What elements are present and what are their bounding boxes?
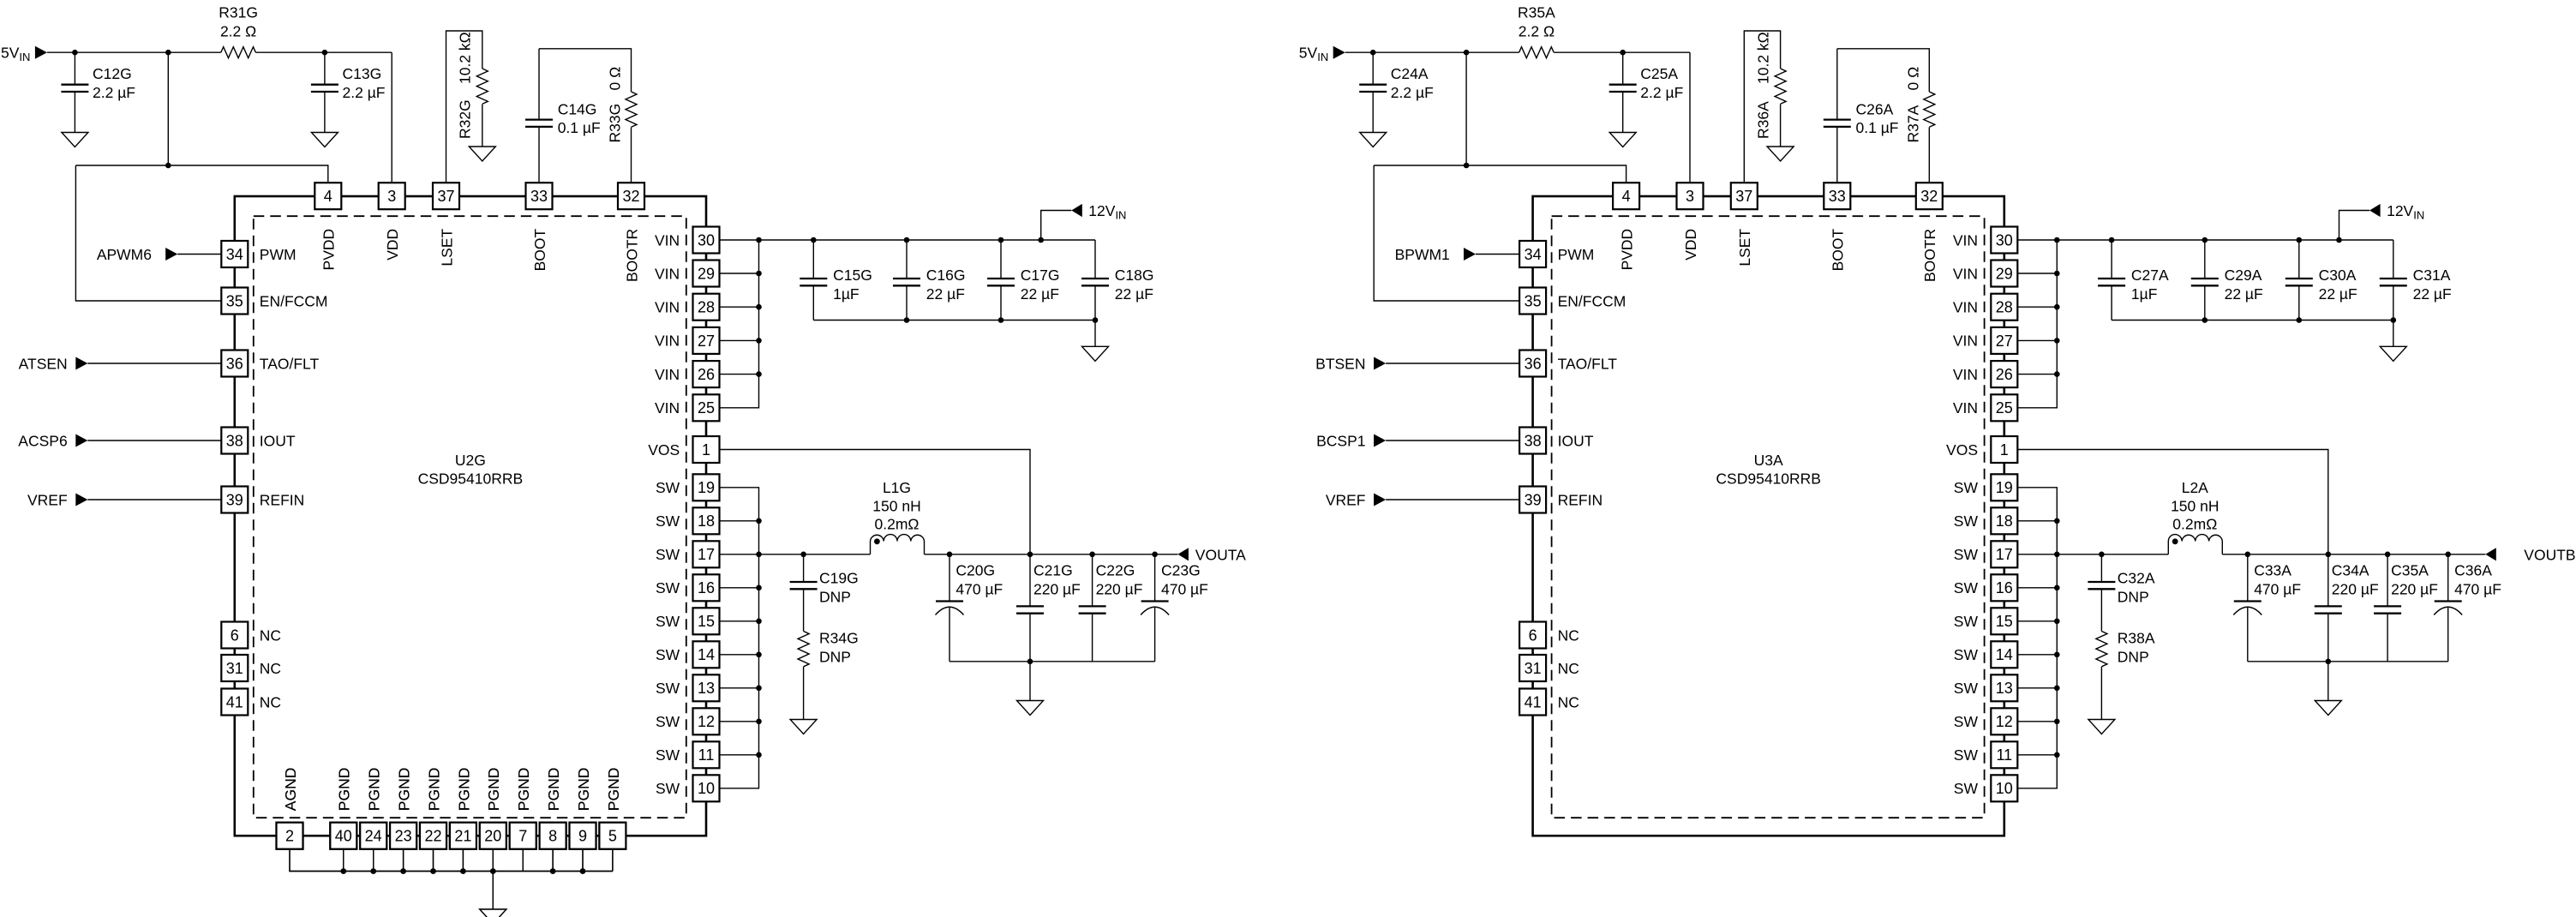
svg-text:BOOTR: BOOTR — [623, 229, 640, 282]
junction SW bus — [756, 552, 762, 558]
pin 35 (EN/FCCM) — [1519, 288, 1626, 315]
junction VIN rail — [2202, 237, 2208, 243]
svg-text:SW: SW — [656, 512, 680, 530]
svg-text:DNP: DNP — [819, 589, 851, 606]
ground — [2380, 346, 2406, 361]
pin 12 (SW) — [1954, 708, 2018, 734]
junction PGND bus — [400, 868, 406, 874]
junction PGND bus — [550, 868, 556, 874]
IC U3A dashed boundary — [1552, 216, 1985, 818]
wire SW pin 12 — [2017, 721, 2057, 722]
wire inductor to output — [925, 554, 1178, 555]
pin 33 (BOOT) — [526, 183, 553, 271]
svg-text:9: 9 — [578, 828, 587, 845]
pin 27 (VIN) — [655, 327, 719, 354]
junction VIN bus — [2054, 304, 2060, 310]
svg-text:TAO/FLT: TAO/FLT — [260, 355, 320, 372]
svg-text:1: 1 — [702, 441, 710, 458]
junction SW bus — [756, 719, 762, 725]
pin 38 (IOUT) — [1519, 428, 1594, 454]
svg-text:VREF: VREF — [27, 491, 68, 508]
svg-text:BCSP1: BCSP1 — [1316, 432, 1365, 449]
svg-text:NC: NC — [1558, 626, 1579, 644]
svg-text:VIN: VIN — [1953, 366, 1978, 383]
pin 17 (SW) — [1954, 541, 2018, 567]
pin 34 (PWM) — [1519, 241, 1594, 267]
svg-text:EN/FCCM: EN/FCCM — [1558, 292, 1626, 309]
pin 33 (BOOT) — [1824, 183, 1850, 271]
pin 19 (SW) — [656, 474, 720, 500]
wire VIN pin 27 — [720, 339, 759, 341]
svg-text:VOS: VOS — [648, 441, 680, 458]
svg-text:2.2 Ω: 2.2 Ω — [220, 23, 256, 40]
wire VIN bottom bus — [813, 320, 1095, 321]
wire PGND pin 24 — [373, 849, 374, 872]
junction SW bus — [756, 585, 762, 591]
ground — [2088, 720, 2115, 734]
pin 16 (SW) — [1954, 574, 2018, 601]
wire PVDD feed — [1374, 165, 1626, 183]
wire SW pin 11 — [2017, 754, 2057, 756]
svg-text:C33A: C33A — [2254, 562, 2291, 579]
wire PVDD feed — [75, 165, 327, 183]
wire R38A to ground — [2100, 667, 2102, 720]
wire AGND — [290, 849, 344, 872]
svg-text:220 µF: 220 µF — [2332, 581, 2379, 598]
svg-text:15: 15 — [1996, 613, 2013, 630]
junction VIN bus — [756, 304, 762, 310]
pin 39 (REFIN) — [221, 487, 304, 513]
pin 29 (VIN) — [1953, 261, 2017, 287]
resistor R34G DNP — [798, 630, 859, 667]
ground — [1017, 701, 1044, 716]
svg-text:C12G: C12G — [93, 65, 132, 82]
svg-text:PGND: PGND — [336, 768, 353, 812]
wire PGND pin 23 — [403, 849, 404, 872]
wire BOOT — [539, 49, 632, 183]
capacitor C14G 0.1 uF — [525, 101, 601, 137]
junction output node — [947, 552, 953, 558]
svg-text:C16G: C16G — [926, 267, 966, 284]
pin 10 (SW) — [656, 775, 720, 801]
capacitor C13G 2.2 uF — [311, 52, 386, 132]
svg-text:3: 3 — [387, 188, 396, 205]
svg-text:C27A: C27A — [2131, 267, 2169, 284]
pin 37 (LSET) — [433, 183, 459, 266]
svg-text:22 µF: 22 µF — [2413, 285, 2452, 303]
pin 39 (REFIN) — [1519, 487, 1603, 513]
svg-text:BTSEN: BTSEN — [1315, 355, 1365, 372]
svg-text:VIN: VIN — [1953, 265, 1978, 282]
svg-text:VIN: VIN — [1953, 399, 1978, 417]
signal flag VREF — [1326, 491, 1519, 508]
svg-text:38: 38 — [226, 432, 243, 449]
capacitor C34A 220 µF — [2315, 554, 2379, 662]
junction SW bus — [2054, 585, 2060, 591]
svg-text:SW: SW — [1954, 780, 1979, 797]
svg-text:DNP: DNP — [819, 649, 851, 666]
resistor R37A 0 ohm — [1904, 67, 1935, 143]
pin 23 (PGND) — [390, 768, 416, 849]
pin 13 (SW) — [656, 674, 720, 701]
svg-text:PGND: PGND — [455, 768, 472, 812]
ground — [311, 133, 338, 147]
IC U2G outline — [235, 196, 706, 836]
svg-text:C22G: C22G — [1096, 562, 1135, 579]
wire PGND pin 8 — [552, 849, 554, 872]
pin 16 (SW) — [656, 574, 720, 601]
svg-text:0.2mΩ: 0.2mΩ — [875, 516, 920, 533]
IC U2G reference label — [418, 452, 524, 488]
junction output node — [2385, 552, 2391, 558]
wire VIN bus ground — [1094, 321, 1096, 347]
pin 17 (SW) — [656, 541, 720, 567]
svg-text:NC: NC — [1558, 693, 1579, 710]
svg-text:PGND: PGND — [425, 768, 442, 812]
junction SW bus — [2054, 619, 2060, 625]
svg-text:18: 18 — [698, 512, 715, 530]
svg-text:C26A: C26A — [1856, 101, 1894, 118]
resistor R38A DNP — [2096, 630, 2155, 667]
signal flag VREF — [27, 491, 221, 508]
wire PGND pin 7 — [522, 849, 524, 872]
pin 7 (PGND) — [510, 768, 536, 849]
junction VIN rail — [998, 237, 1004, 243]
svg-text:28: 28 — [698, 299, 715, 316]
svg-text:220 µF: 220 µF — [2391, 581, 2438, 598]
svg-text:22 µF: 22 µF — [926, 285, 965, 303]
ground — [2315, 701, 2341, 716]
wire PGND pin 22 — [433, 849, 434, 872]
svg-text:NC: NC — [260, 660, 281, 677]
capacitor C22G 220 µF — [1079, 554, 1143, 662]
wire LSET — [1744, 31, 1780, 183]
junction VIN bus — [756, 338, 762, 344]
pin 26 (VIN) — [1953, 361, 2017, 387]
svg-text:11: 11 — [1996, 746, 2012, 764]
junction VIN bus — [2054, 271, 2060, 277]
junction PGND bus — [580, 868, 586, 874]
svg-text:19: 19 — [1996, 479, 2013, 496]
svg-text:IOUT: IOUT — [260, 432, 296, 449]
svg-text:36: 36 — [226, 355, 243, 372]
junction snubber — [2099, 552, 2105, 558]
svg-text:4: 4 — [1622, 188, 1631, 205]
pin 2 (AGND) — [277, 768, 303, 849]
svg-text:470 µF: 470 µF — [1161, 581, 1208, 598]
svg-text:C24A: C24A — [1391, 65, 1429, 82]
svg-text:6: 6 — [231, 626, 239, 644]
svg-text:0 Ω: 0 Ω — [607, 67, 624, 91]
pin 36 (TAO/FLT) — [221, 351, 319, 377]
junction SW bus — [756, 686, 762, 692]
pin 22 (PGND) — [420, 768, 446, 849]
wire 5VIN rail — [47, 51, 221, 53]
wire VIN pin 27 — [2017, 339, 2057, 341]
junction output node — [1089, 552, 1095, 558]
svg-text:C36A: C36A — [2454, 562, 2492, 579]
power flag 5VIN (left half) — [1, 45, 47, 64]
junction PGND bus — [370, 868, 376, 874]
svg-text:PGND: PGND — [575, 768, 592, 812]
wire PGND pin 23 — [403, 849, 404, 872]
capacitor C16G 22 µF — [893, 240, 966, 321]
svg-text:PGND: PGND — [545, 768, 562, 812]
junction SW bus — [2054, 752, 2060, 758]
junction EN node — [165, 163, 171, 169]
pin 9 (PGND) — [570, 768, 596, 849]
pin 30 (VIN) — [655, 227, 719, 254]
signal flag BTSEN — [1315, 355, 1519, 372]
svg-text:26: 26 — [1996, 366, 2013, 383]
wire SW output — [720, 554, 871, 555]
signal flag ACSP6 — [18, 432, 221, 449]
junction VIN bottom bus — [2391, 317, 2397, 323]
wire SW pin 14 — [2017, 654, 2057, 656]
pin 23 (PGND) — [390, 768, 416, 849]
svg-text:PWM: PWM — [260, 246, 297, 263]
wire SW output — [2017, 554, 2168, 555]
junction PGND bus — [341, 868, 347, 874]
pin 28 (VIN) — [1953, 294, 2017, 321]
pin 21 (PGND) — [450, 768, 476, 849]
svg-text:24: 24 — [365, 828, 382, 845]
pin 20 (PGND) — [480, 768, 506, 849]
svg-text:C23G: C23G — [1161, 562, 1201, 579]
pin 2 (AGND) — [277, 768, 303, 849]
svg-text:220 µF: 220 µF — [1096, 581, 1143, 598]
svg-text:1: 1 — [2000, 441, 2009, 458]
capacitor C30A 22 µF — [2285, 240, 2357, 321]
pin 36 (TAO/FLT) — [1519, 351, 1617, 377]
power flag 12VIN — [2339, 202, 2425, 240]
wire R31G to pin 3 — [255, 52, 392, 183]
svg-text:VREF: VREF — [1326, 491, 1366, 508]
svg-text:15: 15 — [698, 613, 715, 630]
junction VIN rail — [2297, 237, 2303, 243]
svg-text:CSD95410RRB: CSD95410RRB — [1716, 470, 1821, 488]
capacitor C12G 2.2 uF — [61, 52, 135, 132]
svg-text:SW: SW — [656, 479, 680, 496]
capacitor C36A 470 µF — [2434, 554, 2501, 662]
svg-text:VDD: VDD — [1682, 229, 1699, 261]
wire output bottom bus — [950, 661, 1155, 662]
svg-text:VOS: VOS — [1946, 441, 1978, 458]
wire PGND pin 9 — [582, 849, 584, 872]
svg-text:19: 19 — [698, 479, 715, 496]
junction 5VIN/C25A — [1620, 50, 1626, 56]
pin 20 (PGND) — [480, 768, 506, 849]
svg-text:35: 35 — [226, 292, 243, 309]
wire VIN pin 26 — [720, 374, 759, 375]
svg-text:4: 4 — [324, 188, 332, 205]
svg-text:18: 18 — [1996, 512, 2013, 530]
ground — [1767, 147, 1794, 161]
ground — [1609, 133, 1636, 147]
junction output node — [2326, 552, 2332, 558]
pin 12 (SW) — [656, 708, 720, 734]
wire output ground — [2327, 662, 2329, 701]
junction VIN bus — [756, 371, 762, 377]
signal flag VOUTA — [1177, 547, 1246, 564]
wire SW pin 15 — [2017, 620, 2057, 622]
junction VIN bus top — [756, 237, 762, 243]
pin 40 (PGND) — [330, 768, 356, 849]
wire 5VIN to EN node — [167, 52, 169, 165]
junction SW bus — [756, 652, 762, 658]
svg-text:28: 28 — [1996, 299, 2013, 316]
capacitor C29A 22 µF — [2191, 240, 2263, 321]
wire SW pin 16 — [720, 587, 759, 589]
ground — [790, 720, 817, 734]
junction PGND bus — [460, 868, 466, 874]
capacitor C26A 0.1 uF — [1824, 101, 1899, 137]
wire PGND pin 21 — [462, 849, 464, 872]
svg-text:R37A: R37A — [1904, 105, 1921, 142]
pin 5 (PGND) — [599, 768, 626, 849]
wire PGND ground stub — [492, 872, 494, 910]
svg-text:34: 34 — [226, 246, 243, 263]
capacitor C20G 470 µF — [936, 554, 1003, 662]
svg-text:R38A: R38A — [2118, 630, 2155, 647]
svg-text:5: 5 — [608, 828, 617, 845]
svg-text:38: 38 — [1525, 432, 1542, 449]
svg-text:10: 10 — [698, 780, 715, 797]
wire PGND pin 5 — [612, 849, 614, 872]
wire VIN bus — [720, 240, 759, 408]
svg-text:BOOT: BOOT — [531, 228, 548, 271]
junction output node — [2445, 552, 2451, 558]
wire output bottom bus — [2248, 661, 2448, 662]
IC U3A outline — [1533, 196, 2004, 836]
capacitor C31A 22 µF — [2380, 240, 2452, 321]
pin 1 (VOS) — [648, 436, 719, 463]
svg-text:PGND: PGND — [396, 768, 413, 812]
svg-text:PGND: PGND — [485, 768, 502, 812]
svg-text:VIN: VIN — [1953, 333, 1978, 350]
junction VIN rail — [811, 237, 817, 243]
svg-text:SW: SW — [656, 713, 680, 730]
wire SW pin 13 — [2017, 687, 2057, 689]
junction SW bus — [756, 518, 762, 524]
svg-text:36: 36 — [1525, 355, 1542, 372]
svg-text:VIN: VIN — [655, 299, 680, 316]
junction SW bus — [2054, 552, 2060, 558]
pin 30 (VIN) — [1953, 227, 2017, 254]
pin 40 (PGND) — [330, 768, 356, 849]
svg-text:150 nH: 150 nH — [2171, 497, 2219, 514]
pin 11 (SW) — [656, 741, 720, 768]
svg-text:PVDD: PVDD — [321, 229, 338, 271]
power flag 5VIN (right half) — [1299, 45, 1345, 64]
svg-text:0.1 µF: 0.1 µF — [1856, 119, 1899, 136]
svg-text:22 µF: 22 µF — [1021, 285, 1059, 303]
svg-text:25: 25 — [1996, 399, 2013, 417]
wire PGND pin 7 — [522, 849, 524, 872]
junction SW bus — [756, 752, 762, 758]
svg-text:31: 31 — [1525, 660, 1542, 677]
wire PGND pin 5 — [612, 849, 614, 872]
svg-text:35: 35 — [1525, 292, 1542, 309]
pin 38 (IOUT) — [221, 428, 296, 454]
wire VIN rail — [2017, 239, 2393, 241]
pin 28 (VIN) — [655, 294, 719, 321]
svg-text:2.2 µF: 2.2 µF — [93, 84, 135, 101]
pin 3 (VDD) — [1677, 183, 1704, 261]
svg-text:C18G: C18G — [1115, 267, 1154, 284]
wire AGND — [290, 849, 344, 872]
junction SW bus — [2054, 686, 2060, 692]
svg-text:14: 14 — [1996, 646, 2013, 663]
signal flag APWM6 — [97, 246, 221, 263]
svg-text:470 µF: 470 µF — [2254, 581, 2301, 598]
svg-text:U3A: U3A — [1754, 452, 1783, 469]
pin 31 (NC) — [221, 655, 281, 681]
ground — [480, 909, 506, 917]
svg-text:11: 11 — [698, 746, 715, 764]
pin 31 (NC) — [1519, 655, 1579, 681]
svg-text:C17G: C17G — [1021, 267, 1060, 284]
svg-text:VIN: VIN — [1953, 299, 1978, 316]
svg-text:REFIN: REFIN — [1558, 491, 1603, 508]
svg-text:23: 23 — [395, 828, 412, 845]
junction SW bus — [756, 619, 762, 625]
pin 15 (SW) — [1954, 608, 2018, 634]
svg-text:39: 39 — [226, 491, 243, 508]
pin 7 (PGND) — [510, 768, 536, 849]
svg-text:LSET: LSET — [1736, 229, 1753, 267]
wire PGND pin 20 — [492, 849, 494, 872]
signal flag BCSP1 — [1316, 432, 1519, 449]
IC U3A reference label — [1716, 452, 1821, 488]
junction 5VIN/C13G — [322, 50, 328, 56]
svg-text:C19G: C19G — [819, 570, 859, 587]
svg-text:16: 16 — [698, 579, 715, 596]
pin 19 (SW) — [1954, 474, 2018, 500]
svg-text:PGND: PGND — [605, 768, 622, 812]
junction PGND bus — [550, 868, 556, 874]
junction PGND bus — [400, 868, 406, 874]
capacitor C18G 22 µF — [1081, 240, 1154, 321]
svg-text:2.2 µF: 2.2 µF — [343, 84, 386, 101]
pin 6 (NC) — [1519, 622, 1579, 649]
wire R35A to pin 3 — [1554, 52, 1690, 183]
pin 24 (PGND) — [360, 768, 386, 849]
wire PGND bus — [344, 871, 613, 872]
wire PGND pin 40 — [343, 849, 344, 872]
svg-text:NC: NC — [260, 693, 281, 710]
wire SW bus — [2017, 488, 2057, 788]
svg-text:REFIN: REFIN — [260, 491, 305, 508]
capacitor C32A DNP — [2088, 554, 2155, 632]
junction 12VIN stub — [2336, 237, 2342, 243]
svg-text:27: 27 — [698, 333, 715, 350]
svg-text:DNP: DNP — [2118, 649, 2149, 666]
resistor R33G 0 ohm — [607, 67, 638, 143]
junction VIN bottom bus — [998, 317, 1004, 323]
pin 10 (SW) — [1954, 775, 2018, 801]
pin 26 (VIN) — [655, 361, 719, 387]
wire VIN pin 26 — [2017, 374, 2057, 375]
svg-text:VIN: VIN — [655, 333, 680, 350]
svg-text:41: 41 — [226, 693, 243, 710]
svg-text:26: 26 — [698, 366, 715, 383]
svg-text:29: 29 — [1996, 265, 2013, 282]
wire PGND pin 22 — [433, 849, 434, 872]
junction 5VIN rail — [1464, 50, 1470, 56]
svg-text:8: 8 — [548, 828, 557, 845]
pin 27 (VIN) — [1953, 327, 2017, 354]
